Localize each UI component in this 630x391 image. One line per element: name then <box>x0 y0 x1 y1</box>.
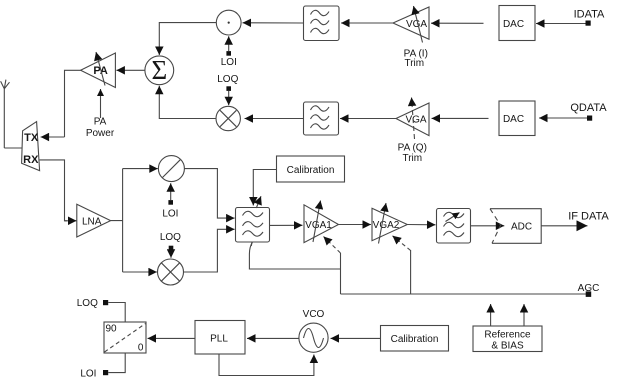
wire ADC to IF DATA with big arrow <box>541 225 587 227</box>
wire PLL feedback to VCO <box>219 354 314 376</box>
wire Q-mixer to sigma bottom <box>159 86 216 119</box>
wire filter F2 to mixer TX-Q <box>245 118 304 120</box>
PLL box <box>195 321 245 355</box>
node LOI (TX) <box>221 36 237 68</box>
svg-text:PLL: PLL <box>210 334 228 345</box>
wire VGA-I to filter F1 <box>341 22 393 24</box>
wire AGC line <box>341 293 587 295</box>
node QDATA <box>570 102 607 121</box>
VGA-Q gain arrow <box>412 98 415 140</box>
wire DAC-I to VGA-I <box>431 22 484 24</box>
amplifier VGA2 <box>372 208 407 240</box>
svg-text:LOQ: LOQ <box>217 74 238 85</box>
svg-text:Trim: Trim <box>404 58 424 69</box>
wire Calibration to filter F3 <box>253 170 276 206</box>
svg-text:ADC: ADC <box>511 221 532 232</box>
wire filter F3 feedback to AGC line <box>249 242 340 269</box>
wire QDATA to DAC-Q <box>539 117 587 119</box>
svg-text:Calibration: Calibration <box>287 165 335 176</box>
node LOQ (RX) <box>160 232 181 258</box>
wire VCO to PLL <box>247 337 299 339</box>
wire VGA1 to VGA2 <box>339 224 372 226</box>
filter F3 tune arrow <box>256 196 261 208</box>
amplifier VGA (I) <box>393 7 429 39</box>
wire AGC vertical to VGA2 <box>410 250 412 294</box>
DAC (I) box <box>499 6 535 41</box>
wire AGC vertical to VGA1 <box>340 253 342 294</box>
TX/RX switch <box>22 122 40 171</box>
summer U-sigma <box>145 55 174 85</box>
filter F3 (RX channel filter) <box>236 208 270 243</box>
arrow into LNA <box>65 220 77 222</box>
svg-text:RX: RX <box>23 154 39 166</box>
wire filter F4 to ADC <box>471 225 505 227</box>
wire switch RX to LNA <box>40 160 67 221</box>
VGA2 AGC dashed arrow <box>393 236 411 251</box>
wire branch to mixer RX-I <box>123 168 158 170</box>
svg-text:Power: Power <box>86 128 115 139</box>
wire I-mixer to sigma top <box>159 23 216 55</box>
svg-text:90: 90 <box>106 324 118 335</box>
node AGC <box>578 283 600 297</box>
node LOI (RX) <box>162 183 178 220</box>
node LOI (synth) <box>80 368 108 379</box>
wire mixer RX-Q to filter F3 <box>184 229 235 272</box>
Reference & BIAS box <box>473 326 542 352</box>
svg-text:DAC: DAC <box>503 114 524 125</box>
PA power control line <box>100 89 102 118</box>
svg-text:PA: PA <box>94 117 107 128</box>
wire PLL to quadrature box <box>148 337 196 339</box>
wire PA output down to switch <box>65 70 81 137</box>
svg-text:IF DATA: IF DATA <box>568 211 609 223</box>
wire antenna to switch <box>4 147 22 149</box>
svg-text:LOI: LOI <box>162 209 178 220</box>
svg-text:Reference: Reference <box>484 329 531 340</box>
svg-text:DAC: DAC <box>503 19 524 30</box>
wire + arrow into TX port <box>41 136 65 138</box>
amplifier VGA1 <box>304 205 339 243</box>
svg-text:& BIAS: & BIAS <box>491 340 524 351</box>
quadrature splitter box <box>104 322 146 354</box>
svg-text:QDATA: QDATA <box>570 102 607 114</box>
svg-text:LOI: LOI <box>221 57 237 68</box>
antenna <box>1 80 10 148</box>
wire LOI to quadrature box <box>108 353 125 373</box>
svg-text:LOQ: LOQ <box>77 298 98 309</box>
mixer TX-I (multiplier) <box>216 10 241 35</box>
mixer RX-I <box>158 156 184 182</box>
wire LNA to branch node <box>111 169 123 272</box>
VGA1 gain arrow <box>313 201 321 243</box>
label PA (Q) Trim <box>398 143 427 164</box>
wire DAC-Q to VGA-Q <box>432 117 489 119</box>
svg-text:VGA1: VGA1 <box>305 220 332 231</box>
wire branch to mixer RX-Q <box>123 271 157 273</box>
amplifier LNA <box>77 204 111 237</box>
filter F2 (TX Q) <box>304 102 339 135</box>
node LOQ (synth) <box>77 298 108 309</box>
VGA-I gain arrow <box>414 6 423 43</box>
svg-text:0: 0 <box>138 343 144 354</box>
svg-text:Calibration: Calibration <box>391 334 439 345</box>
Calibration box (RX) <box>277 156 345 182</box>
wire VGA-Q to filter F2 <box>340 118 396 120</box>
VGA1 AGC dashed arrow <box>324 237 341 254</box>
mixer TX-Q <box>216 106 240 130</box>
svg-text:VGA: VGA <box>405 114 426 125</box>
svg-text:LNA: LNA <box>82 216 102 227</box>
filter F4 (IF filter) <box>437 209 471 244</box>
filter F1 (TX I) <box>304 6 340 41</box>
label PA (I) Trim <box>404 48 428 69</box>
PA gain arrow <box>96 52 105 86</box>
wire VGA2 to filter F4 <box>407 224 435 226</box>
DAC (Q) box <box>499 101 535 136</box>
svg-text:VCO: VCO <box>303 309 325 320</box>
svg-text:VGA2: VGA2 <box>373 220 400 231</box>
VCO oscillator <box>299 309 328 352</box>
amplifier VGA (Q) <box>396 103 429 136</box>
ADC block <box>490 209 541 244</box>
svg-text:LOI: LOI <box>80 368 96 379</box>
label PA Power <box>86 117 115 140</box>
op-amp PA <box>81 53 116 88</box>
VGA2 gain arrow <box>379 203 387 244</box>
wire LOQ to quadrature box <box>108 303 125 323</box>
wire filter F3 to VGA1 <box>270 224 303 226</box>
wire sigma to PA with arrow <box>116 69 144 71</box>
Reference arrow 1 <box>490 304 492 326</box>
node LOQ (TX) <box>217 74 238 105</box>
Reference arrow 2 <box>523 304 525 326</box>
svg-text:Trim: Trim <box>402 153 422 164</box>
wire Calibration to VCO <box>331 337 381 339</box>
svg-text:LOQ: LOQ <box>160 232 181 243</box>
svg-text:Σ: Σ <box>151 55 167 85</box>
mixer RX-Q <box>158 259 184 285</box>
svg-text:IDATA: IDATA <box>574 9 605 21</box>
node IDATA <box>574 9 605 26</box>
svg-text:AGC: AGC <box>578 283 600 294</box>
wire IDATA to DAC-I <box>536 23 586 25</box>
wire mixer RX-I to filter F3 <box>184 169 234 219</box>
wire filter-I to mixer TX-I <box>243 22 304 24</box>
svg-text:TX: TX <box>24 132 39 144</box>
Calibration box (synth) <box>381 326 449 352</box>
